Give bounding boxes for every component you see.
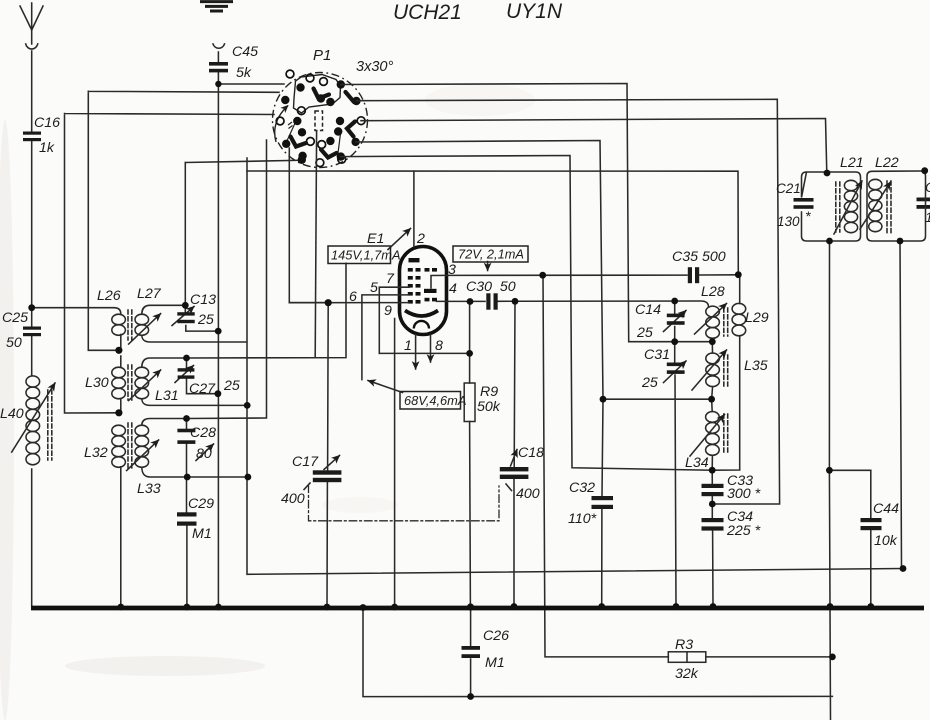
svg-text:P1: P1 [313,47,331,64]
svg-text:R3: R3 [675,637,693,653]
svg-text:L32: L32 [84,445,108,461]
svg-text:L31: L31 [155,388,179,404]
svg-text:L40: L40 [0,406,24,422]
svg-text:C25: C25 [2,310,28,326]
svg-text:R9: R9 [480,384,498,400]
svg-text:C32: C32 [569,480,595,496]
svg-text:C29: C29 [188,496,214,512]
svg-text:10k: 10k [874,533,898,549]
svg-text:25: 25 [636,325,653,341]
svg-text:E1: E1 [367,231,384,247]
svg-text:*: * [805,209,811,225]
svg-text:C30 50: C30 50 [466,279,516,295]
svg-text:M1: M1 [485,655,505,671]
svg-text:C: C [925,180,930,196]
svg-text:5k: 5k [236,65,252,81]
svg-text:1: 1 [404,338,412,354]
svg-text:C13: C13 [190,292,216,308]
svg-text:C27: C27 [189,381,216,397]
svg-text:225 *: 225 * [726,523,761,539]
svg-text:80: 80 [196,446,212,462]
svg-text:5: 5 [370,280,378,296]
svg-text:L30: L30 [85,375,109,391]
svg-text:L33: L33 [137,481,161,497]
svg-text:3x30°: 3x30° [356,59,393,75]
svg-text:25: 25 [641,375,658,391]
svg-text:L34: L34 [685,455,709,471]
svg-text:50: 50 [6,335,22,351]
svg-text:C16: C16 [34,115,60,131]
svg-text:25: 25 [197,312,214,328]
svg-text:400: 400 [281,491,305,507]
svg-text:L26: L26 [97,288,121,304]
svg-text:400: 400 [516,486,540,502]
svg-text:1k: 1k [39,140,55,156]
svg-text:25: 25 [223,378,240,394]
svg-text:L21: L21 [840,155,864,171]
svg-text:32k: 32k [675,666,699,682]
svg-text:6: 6 [349,289,357,305]
svg-text:C21: C21 [776,181,801,196]
svg-text:68V,4,6mA: 68V,4,6mA [404,393,466,408]
svg-text:C45: C45 [232,44,258,60]
svg-text:C28: C28 [190,425,216,441]
svg-text:L27: L27 [137,286,162,302]
svg-text:C26: C26 [483,628,509,644]
svg-text:4: 4 [449,281,457,297]
svg-text:L22: L22 [875,155,899,171]
svg-text:C14: C14 [635,302,661,318]
svg-text:9: 9 [384,303,392,319]
svg-text:8: 8 [435,338,443,354]
svg-text:3: 3 [448,262,456,278]
svg-text:C31: C31 [644,347,670,363]
svg-text:300 *: 300 * [727,486,761,502]
svg-text:2: 2 [416,231,425,247]
svg-text:7: 7 [386,271,395,287]
svg-text:130: 130 [777,214,800,229]
svg-text:L29: L29 [745,310,769,326]
svg-text:C44: C44 [873,501,899,517]
svg-text:50k: 50k [477,399,501,415]
svg-text:C18: C18 [518,445,544,461]
svg-text:M1: M1 [192,526,212,542]
svg-text:1: 1 [925,210,930,226]
svg-text:UCH21: UCH21 [393,1,462,24]
svg-text:72V, 2,1mA: 72V, 2,1mA [458,247,524,262]
svg-text:145V,1,7mA: 145V,1,7mA [331,248,400,263]
svg-text:C17: C17 [292,454,319,470]
svg-text:110*: 110* [568,511,597,527]
svg-text:L28: L28 [701,284,725,300]
svg-text:C35 500: C35 500 [672,249,726,265]
svg-text:UY1N: UY1N [506,0,563,23]
svg-text:L35: L35 [744,358,768,374]
